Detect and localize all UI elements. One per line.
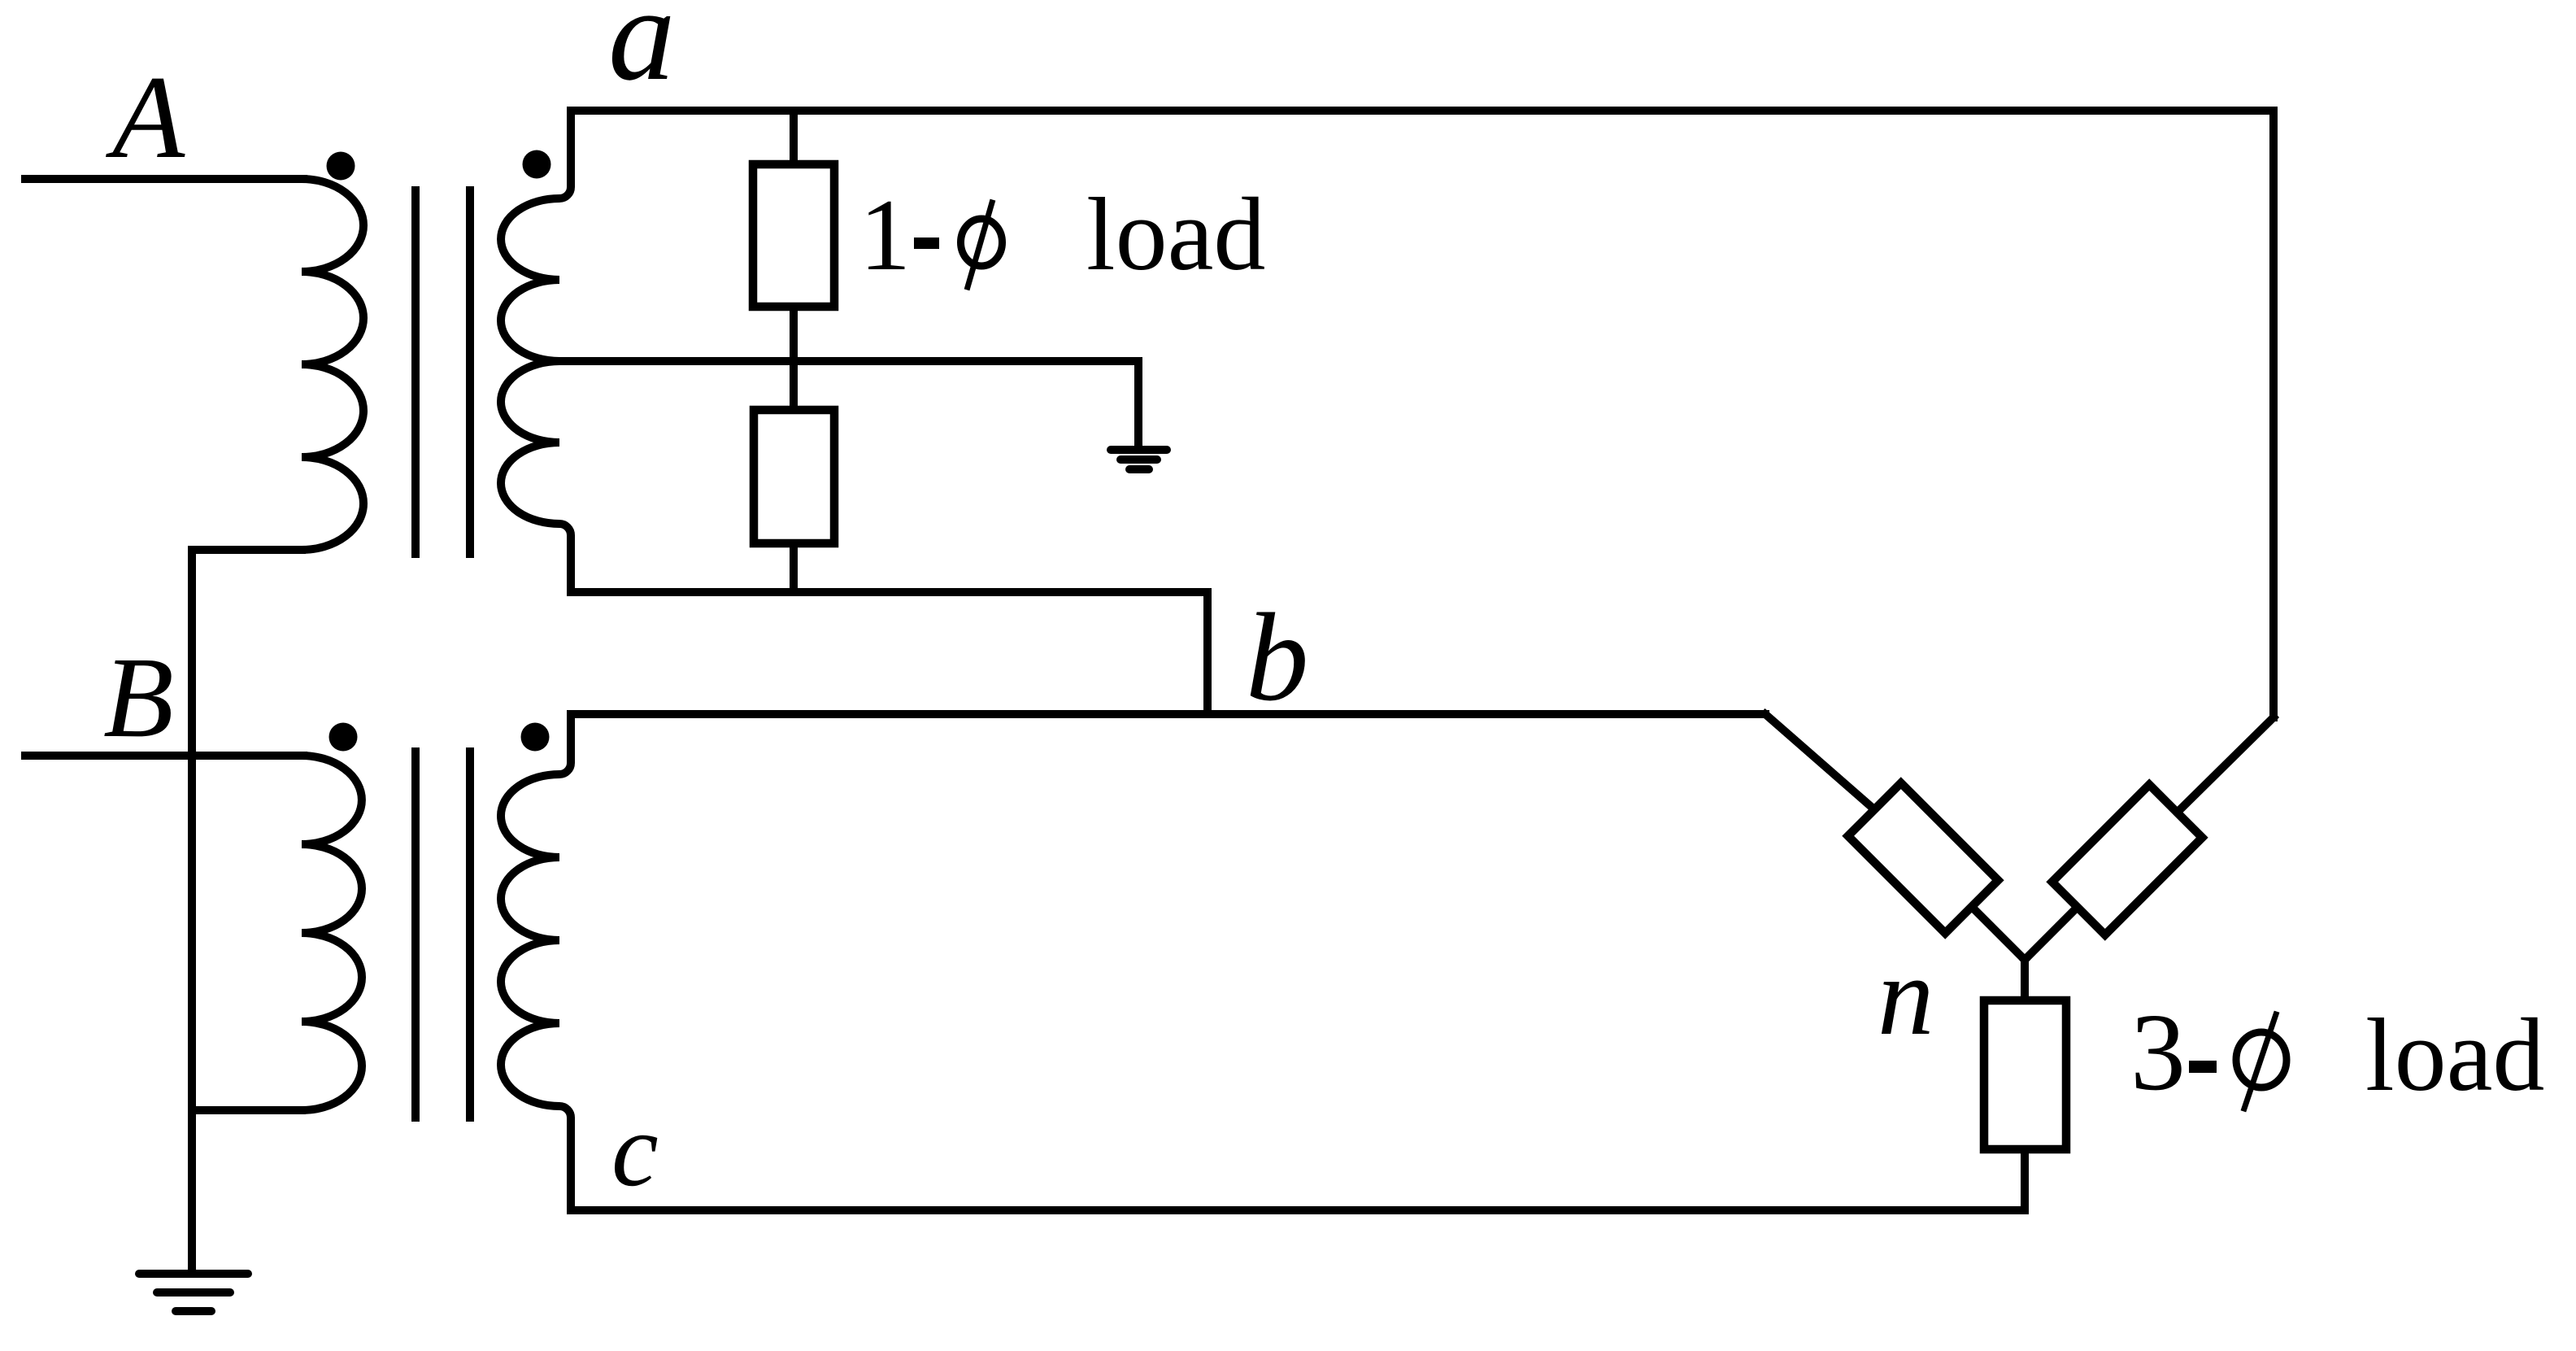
wire a top bus: [571, 107, 2274, 115]
wire right-side drop: [2269, 111, 2278, 717]
label 1-phase load: [859, 177, 1265, 292]
polarity dot T1 primary: [327, 152, 355, 181]
svg-text:B: B: [103, 633, 174, 761]
load resistor Z2 (rotated, from a): [2052, 785, 2203, 935]
svg-text:n: n: [1878, 934, 1934, 1059]
ground (left bottom): [139, 1274, 248, 1311]
resistor R1 (1-phase load upper): [753, 164, 834, 307]
wire tap ground stem: [1134, 361, 1142, 447]
wire T1 secondary bottom to b: [571, 592, 1207, 714]
transformer T1 secondary winding: [501, 111, 571, 592]
wire R1 stem: [790, 111, 798, 171]
load resistor Z1 (rotated, from b): [1848, 783, 1999, 934]
transformer T2 secondary winding: [501, 714, 571, 1210]
svg-text:3: 3: [2130, 991, 2186, 1113]
resistor R2 (1-phase load lower): [754, 410, 834, 543]
label 3-phase load: [2130, 991, 2544, 1113]
svg-text:load: load: [1086, 177, 1265, 292]
transformer T2 primary winding: [302, 756, 362, 1110]
wire T1 primary bottom: [192, 546, 302, 554]
wire A lead-in: [25, 175, 303, 183]
phi symbol (1-phase): [961, 219, 1003, 266]
svg-text:c: c: [611, 1092, 659, 1209]
wire left vertical (T1 primary bottom to ground): [188, 550, 196, 1270]
wire R1 to R2: [790, 307, 798, 415]
svg-text:a: a: [608, 0, 676, 108]
wire n stem: [2021, 960, 2029, 1004]
svg-text:load: load: [2365, 997, 2544, 1113]
wire T1 secondary center tap: [556, 357, 1138, 365]
wire B lead-in: [25, 752, 303, 760]
wire T2 primary bottom: [192, 1106, 302, 1114]
transformer T1 primary winding: [302, 179, 363, 550]
ground (center tap): [1111, 450, 1167, 469]
wire right load resistor to n: [2025, 887, 2098, 960]
wire left load resistor to n: [1952, 887, 2025, 960]
wire c bottom bus: [571, 1206, 2025, 1214]
wire R2 bottom: [790, 543, 798, 592]
phi symbol (3-phase): [2236, 1032, 2287, 1087]
transformer T1 core: [411, 190, 420, 554]
svg-text:A: A: [106, 51, 185, 183]
polarity dot T2 secondary: [521, 723, 550, 752]
wire b diagonal to load: [1765, 714, 1888, 821]
svg-text:1: 1: [859, 179, 911, 292]
transformer T2 core: [411, 752, 420, 1118]
load resistor Z3 (vertical): [1984, 1000, 2066, 1149]
wire b bus: [571, 710, 1765, 718]
wire Z3 bottom: [2021, 1149, 2029, 1210]
wire right diagonal to load: [2156, 717, 2274, 833]
svg-text:b: b: [1246, 587, 1309, 727]
polarity dot T1 secondary: [523, 150, 551, 179]
polarity dot T2 primary: [329, 723, 358, 752]
